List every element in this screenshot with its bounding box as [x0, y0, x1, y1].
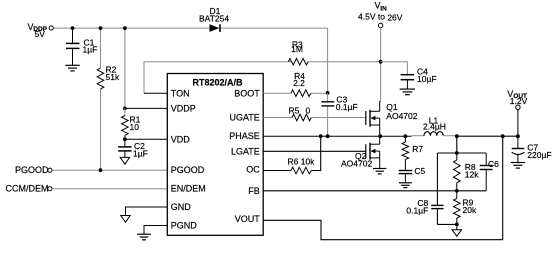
wire TON loop [144, 62, 292, 94]
node junction R7/PHASE [404, 134, 408, 138]
wire OC line [263, 170, 291, 172]
wire BOOT stub [263, 92, 291, 94]
wire R6 riser to PHASE [312, 136, 321, 170]
svg-text:VDD: VDD [171, 134, 191, 144]
wire divider sense drop [456, 136, 458, 153]
wire FB line [263, 190, 486, 192]
wire R2 leads [100, 28, 102, 170]
wire GND pin [126, 207, 168, 215]
node junction divider/output [455, 134, 459, 138]
svg-text:R7: R7 [412, 144, 423, 154]
svg-text:PGND: PGND [171, 221, 198, 231]
node junction C7/output [516, 134, 520, 138]
wire TON pin stub [144, 92, 167, 94]
wire PHASE gray segment to L1 [412, 135, 425, 137]
svg-text:0.1µF: 0.1µF [336, 102, 358, 112]
svg-text:BOOT: BOOT [234, 88, 260, 98]
transistor Q2 AO4702 [341, 136, 380, 168]
svg-text:2.4µH: 2.4µH [423, 122, 446, 132]
node junction R2/PGOOD [99, 168, 103, 172]
resistor R3 [288, 39, 308, 65]
node junction Q1/Q2/PHASE [378, 134, 382, 138]
ground (C1) [65, 65, 79, 71]
ground (Q2 source) [373, 169, 386, 174]
node junction R2/rail [99, 26, 103, 30]
svg-text:BAT254: BAT254 [199, 14, 229, 24]
wire UGATE stub [263, 117, 292, 119]
node junction BOOT/D1/C3 [326, 91, 330, 95]
ground (C7) [511, 163, 525, 169]
node junction R6/PHASE [319, 134, 323, 138]
svg-text:R5: R5 [289, 106, 300, 116]
resistor R8 [454, 153, 480, 191]
svg-text:EN/DEM: EN/DEM [171, 184, 206, 194]
node junction R8 top [455, 151, 459, 155]
svg-text:CCM/DEM: CCM/DEM [6, 184, 49, 194]
capacitor C8 [406, 153, 443, 224]
node VIN terminal [358, 1, 403, 28]
capacitor C6 [480, 153, 499, 191]
capacitor C7 (polarized) [512, 136, 552, 162]
node junction VIN/R3/C4 [379, 60, 383, 64]
capacitor C3 [321, 93, 357, 136]
svg-text:LGATE: LGATE [231, 146, 260, 156]
svg-text:5V: 5V [35, 29, 46, 39]
ground (C2, triangle) [120, 157, 129, 164]
resistor R4 [291, 71, 311, 96]
wire L1 to output [443, 135, 457, 137]
op-amp U1 : IC box RT8202/A/B [167, 74, 263, 236]
wire VDD pin stub [125, 138, 167, 140]
node junction VDDP-branch/rail [123, 26, 127, 30]
svg-text:TON: TON [171, 88, 190, 98]
wire divider top line [437, 152, 486, 154]
inductor L1 [423, 115, 446, 135]
svg-text:1µF: 1µF [133, 149, 148, 159]
wire VDDP top rail [54, 28, 328, 93]
svg-text:1µF: 1µF [83, 45, 98, 55]
node VDDP terminal [28, 22, 54, 39]
svg-text:0.1µF: 0.1µF [406, 206, 428, 216]
svg-text:R6 10k: R6 10k [288, 157, 316, 167]
wire VDDP pin stub [125, 107, 167, 109]
node junction C1/rail [71, 26, 75, 30]
wire R4 to BOOT node [311, 92, 328, 94]
svg-text:12k: 12k [465, 170, 479, 180]
svg-text:UGATE: UGATE [229, 113, 259, 123]
svg-text:220µF: 220µF [527, 150, 551, 160]
wire VIN vertical [380, 28, 382, 102]
svg-text:AO4702: AO4702 [386, 111, 417, 121]
resistor R7 [402, 136, 423, 170]
svg-text:20k: 20k [463, 205, 477, 215]
svg-text:2.2: 2.2 [293, 78, 305, 88]
svg-text:1.2V: 1.2V [510, 96, 528, 106]
node junction R1/C2/VDD [123, 137, 127, 141]
svg-text:10: 10 [130, 122, 140, 132]
wire LGATE line [263, 150, 365, 152]
node PGOOD terminal [15, 165, 52, 175]
resistor R5 [289, 106, 312, 121]
ground (divider, triangle) [452, 224, 462, 236]
node junction VOUT-route/output [501, 134, 505, 138]
capacitor C2 [118, 139, 148, 158]
node CCM/DEM terminal [6, 184, 53, 194]
capacitor C1 [66, 28, 97, 65]
ground (C5) [399, 183, 412, 188]
transistor Q1 AO4702 [366, 101, 418, 136]
wire divider bottom line [437, 223, 456, 225]
node junction R9/C8/ground [455, 223, 459, 227]
node junction C3/PHASE [326, 134, 330, 138]
svg-text:0: 0 [306, 106, 311, 116]
diode D1 [199, 6, 229, 32]
node junction VDDP/R1 [123, 107, 127, 111]
wire PGND pin [144, 226, 167, 235]
wire C4 branch [381, 62, 408, 74]
svg-text:PHASE: PHASE [229, 131, 260, 141]
wire PGOOD [52, 169, 167, 171]
wire R3 to VIN [308, 61, 380, 63]
wire R5 to Q1 gate [311, 117, 365, 119]
svg-text:C5: C5 [414, 166, 425, 176]
svg-text:10µF: 10µF [417, 74, 437, 84]
svg-text:GND: GND [171, 202, 192, 212]
wire EN/DEM [52, 188, 167, 190]
wire VOUT pin route [263, 136, 503, 240]
resistor R6 [288, 157, 316, 174]
svg-text:RT8202/A/B: RT8202/A/B [192, 78, 243, 88]
resistor R1 [122, 108, 141, 139]
svg-text:AO4702: AO4702 [341, 158, 372, 168]
ground (C4) [400, 89, 415, 95]
svg-text:C6: C6 [488, 159, 499, 169]
capacitor C4 [401, 66, 437, 88]
svg-text:FB: FB [248, 186, 260, 196]
node VOUT terminal [507, 89, 527, 109]
resistor R9 [454, 191, 477, 225]
wire VOUT terminal drop [517, 110, 519, 137]
wire PHASE line [263, 135, 411, 137]
svg-text:OC: OC [246, 165, 260, 175]
svg-text:VOUT: VOUT [235, 214, 261, 224]
wire output line [457, 135, 519, 137]
svg-text:1M: 1M [291, 44, 303, 54]
resistor R2 [97, 65, 120, 90]
capacitor C5 [399, 166, 426, 183]
svg-text:51k: 51k [106, 72, 120, 82]
wire VDDP pin branch [124, 28, 126, 108]
ground (GND pin, triangle) [121, 216, 130, 223]
svg-text:4.5V to 26V: 4.5V to 26V [358, 11, 403, 22]
ground (PGND) [137, 234, 151, 240]
svg-text:PGOOD: PGOOD [15, 165, 49, 175]
svg-text:VDDP: VDDP [171, 103, 196, 113]
svg-text:PGOOD: PGOOD [171, 165, 205, 175]
node junction R8/R9/FB [455, 189, 459, 193]
